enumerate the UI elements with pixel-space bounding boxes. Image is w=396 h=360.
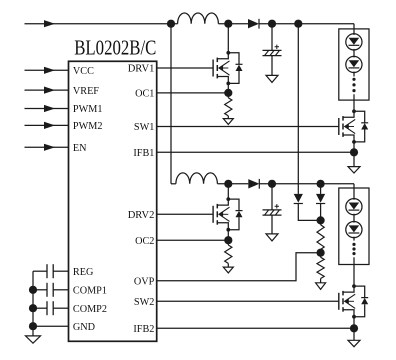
svg-text:SW1: SW1 [134, 121, 155, 133]
svg-text:OC1: OC1 [135, 88, 154, 100]
svg-text:VCC: VCC [73, 65, 94, 77]
svg-text:DRV1: DRV1 [128, 63, 155, 75]
svg-text:EN: EN [73, 142, 87, 154]
svg-text:OC2: OC2 [135, 235, 154, 247]
svg-text:PWM2: PWM2 [73, 120, 103, 132]
svg-text:COMP1: COMP1 [73, 285, 107, 297]
svg-text:IFB1: IFB1 [133, 147, 154, 159]
svg-text:REG: REG [73, 266, 94, 278]
svg-text:SW2: SW2 [134, 296, 155, 308]
svg-text:GND: GND [73, 321, 95, 333]
svg-text:BL0202B/C: BL0202B/C [74, 36, 156, 60]
svg-text:PWM1: PWM1 [73, 103, 103, 115]
svg-text:DRV2: DRV2 [128, 209, 155, 221]
svg-text:OVP: OVP [134, 276, 155, 288]
svg-text:VREF: VREF [73, 85, 99, 97]
svg-text:COMP2: COMP2 [73, 303, 107, 315]
svg-text:IFB2: IFB2 [133, 323, 154, 335]
